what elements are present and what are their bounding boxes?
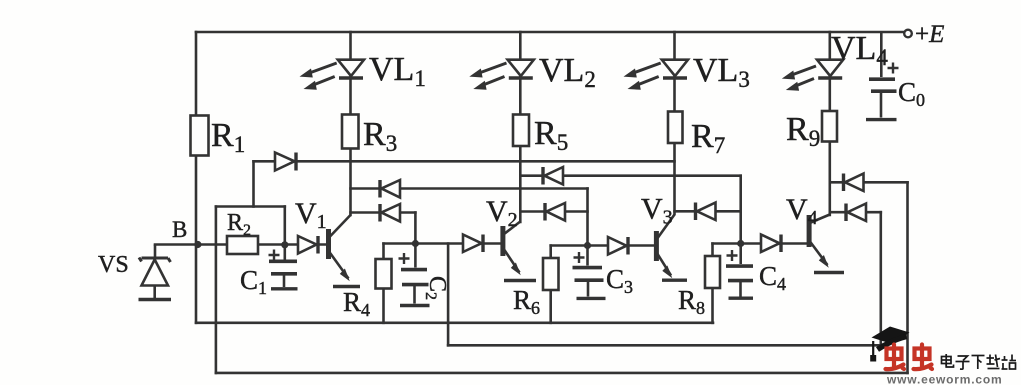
resistor R9 xyxy=(822,111,837,142)
resistor R2 xyxy=(227,236,258,254)
wire stage4 bottom diode row xyxy=(830,211,881,214)
wire stage1 top diode row to node2 vertical xyxy=(351,187,588,190)
wire stage3 diode row to node3 vertical xyxy=(675,210,741,213)
capacitor C2 xyxy=(399,245,430,306)
diode D1 discharge diode above R2 loop xyxy=(275,153,296,171)
capacitor C3 xyxy=(573,247,606,298)
LED VL3 xyxy=(624,60,689,90)
capacitor C4 xyxy=(726,245,753,298)
wire stage2 bottom diode row to node2 vertical xyxy=(520,210,587,213)
diode stage1 lower steering diode xyxy=(380,204,400,222)
node 2 junction dot xyxy=(584,242,591,249)
watermark text dian zi xia zai zhan xyxy=(942,354,1017,369)
wire R2 loop right side xyxy=(283,207,286,245)
resistor R7 xyxy=(668,112,683,144)
transistor V2 xyxy=(503,222,536,281)
svg-text:VS: VS xyxy=(98,252,129,278)
resistor R6 xyxy=(543,258,559,290)
capacitor C1 xyxy=(269,246,298,289)
resistor R3 xyxy=(342,115,359,149)
LED VL4 xyxy=(782,60,843,91)
diode stage1 upper steering diode xyxy=(380,180,400,198)
wire R1 column from top rail to node B xyxy=(195,32,198,245)
diode stage2 lower steering diode xyxy=(545,203,565,221)
wire node B down to bottom rail 1 xyxy=(195,245,198,323)
resistor R5 xyxy=(513,115,529,147)
wire R8 branch from node3 row to bottom rail 1 xyxy=(711,244,714,323)
wire node3 row to V4 base xyxy=(713,242,808,245)
diode stage4 lower steering diode xyxy=(846,204,866,222)
wire stage4 top diode drop to bottom rail 3 xyxy=(906,182,909,373)
wire top supply rail xyxy=(196,31,904,34)
wire node2 vertical drop xyxy=(586,189,589,246)
wire bottom rail 2 xyxy=(448,344,881,347)
node B junction dot xyxy=(194,241,201,248)
wire R2 loop top edge xyxy=(216,205,285,208)
capacitor C0 xyxy=(866,32,899,120)
wire node3 vertical drop xyxy=(739,176,742,244)
svg-text:B: B xyxy=(172,217,187,242)
wire stage4 column: VL4, R9, V4 collector xyxy=(828,32,831,215)
wire R4 branch from node1 row to bottom rail 1 xyxy=(382,244,385,323)
wire stage2 top diode row to node3 vertical xyxy=(520,174,740,177)
transistor V3 xyxy=(656,215,687,281)
wire tap from loop top to diode D1 anode xyxy=(252,161,255,206)
diode V1 base coupling diode xyxy=(298,236,318,254)
node 3 junction dot xyxy=(737,240,744,247)
wire bottom rail 3 xyxy=(216,372,908,375)
watermark red character chong 2 xyxy=(914,345,933,370)
watermark red character chong 1 xyxy=(886,345,905,370)
zener diode VS xyxy=(139,245,172,300)
wire R6 branch from node2 row to bottom rail 1 xyxy=(549,246,552,323)
diode stage3 steering diode xyxy=(696,203,716,221)
wire R2 loop left side and vertical down to bottom rail 3 xyxy=(215,207,218,373)
wire stage1 column: VL1, R3, V1 collector xyxy=(349,32,352,215)
resistor R1 xyxy=(191,116,209,156)
svg-text:+E: +E xyxy=(915,21,944,48)
diode stage4 upper steering diode xyxy=(844,174,864,192)
+E supply terminal xyxy=(904,30,912,38)
resistor R8 xyxy=(705,256,720,288)
wire line L1 from D1 through to V3 collector xyxy=(254,160,675,163)
resistor R4 xyxy=(376,259,392,289)
LED VL2 xyxy=(469,60,534,90)
LED VL1 xyxy=(300,60,365,90)
diode stage2 upper steering diode xyxy=(543,167,563,185)
transistor V4 xyxy=(809,215,844,273)
diode V4 base coupling diode xyxy=(761,235,781,253)
wire node1 row to V2 base xyxy=(384,242,502,245)
wire stage3 column: VL3, R7, V3 collector xyxy=(673,32,676,214)
wire node1 down to bottom rail 2 xyxy=(447,244,450,346)
diode V2 base coupling diode xyxy=(463,235,483,253)
wire stage1 bottom diode row xyxy=(351,211,416,214)
node junction dot after R2 xyxy=(281,241,288,248)
wire bottom rail 1 xyxy=(196,321,713,324)
wire stage2 column: VL2, R5, V2 collector xyxy=(519,32,522,222)
wire stage4 top diode row xyxy=(830,181,908,184)
transistor V1 xyxy=(329,215,361,287)
wire stage4 bottom diode drop to bottom rail 2 xyxy=(879,212,882,345)
diode V3 base coupling diode xyxy=(608,237,628,255)
wire node2 row to V3 base xyxy=(551,244,655,247)
watermark graduation cap logo xyxy=(870,327,909,362)
node 1 junction dot xyxy=(412,240,419,247)
wire base row B from VS to V1 base xyxy=(155,243,327,246)
wire from stage1 bottom diode down to node1 xyxy=(414,213,417,244)
svg-text:www.eeworm.com: www.eeworm.com xyxy=(886,373,1002,385)
